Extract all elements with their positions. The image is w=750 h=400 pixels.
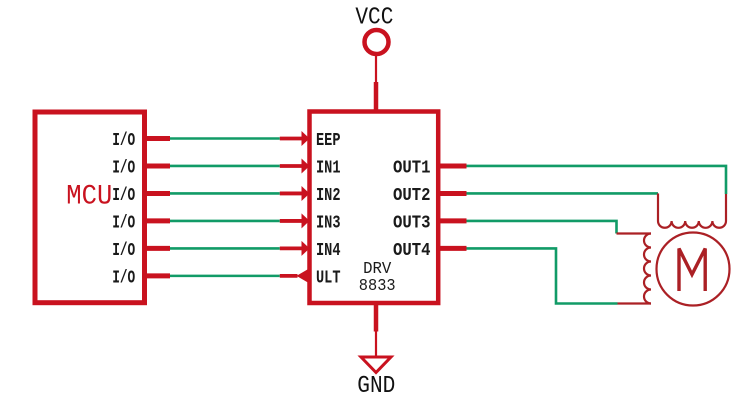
MCU pin stub I/O 2 (145, 163, 171, 168)
wire MCU to ULT (170, 275, 280, 278)
wire MCU to IN2 (170, 192, 280, 195)
motor M1 coil A lead left (657, 193, 659, 221)
wire MCU to IN3 (170, 220, 280, 223)
motor M1 coil A lead right (725, 194, 727, 221)
svg-text:I/O: I/O (112, 213, 135, 233)
pin IN2 arrowhead (302, 186, 310, 201)
pin OUT4 stub (438, 246, 467, 251)
wire OUT2 to motor coil A left (467, 192, 659, 195)
wire OUT4 to motor coil B bottom (467, 248, 618, 303)
pin IN4 arrowhead (302, 241, 310, 256)
svg-text:MCU: MCU (66, 182, 112, 213)
motor M1 coil B (vertical inductor) (644, 234, 651, 304)
VCC pin stub (thick) (374, 82, 379, 112)
GND pin stub (thick) (374, 303, 379, 332)
wire GND (thin) (375, 332, 377, 357)
pin IN1 lead (280, 164, 302, 168)
svg-text:IN4: IN4 (316, 241, 341, 261)
motor M1 letter M (679, 249, 705, 292)
motor M1 coil B lead top (617, 232, 652, 234)
svg-text:OUT1: OUT1 (393, 158, 431, 178)
pin EEP arrowhead (302, 131, 310, 146)
svg-text:I/O: I/O (112, 131, 135, 151)
pin ULT lead (280, 274, 298, 278)
DRV8833 U1 box (310, 112, 439, 304)
pin IN2 lead (280, 192, 302, 196)
motor M1 coil B lead bottom (618, 302, 652, 304)
MCU box (35, 112, 145, 303)
svg-text:ULT: ULT (316, 268, 341, 288)
MCU pin stub I/O 3 (145, 191, 171, 196)
svg-text:8833: 8833 (359, 276, 396, 295)
svg-text:I/O: I/O (112, 268, 135, 288)
svg-text:OUT3: OUT3 (393, 213, 431, 233)
svg-text:EEP: EEP (316, 131, 341, 151)
pin ULT arrowhead (points left) (297, 269, 309, 283)
svg-text:IN2: IN2 (316, 186, 341, 206)
svg-text:I/O: I/O (112, 186, 135, 206)
svg-text:GND: GND (357, 373, 395, 400)
wire MCU to IN1 (170, 165, 280, 168)
svg-text:IN3: IN3 (316, 213, 341, 233)
VCC symbol circle (365, 30, 389, 54)
MCU pin stub I/O 5 (145, 246, 171, 251)
svg-text:I/O: I/O (112, 241, 135, 261)
motor M1 body circle (657, 233, 730, 306)
MCU pin stub I/O 4 (145, 218, 171, 223)
svg-text:OUT4: OUT4 (393, 241, 431, 261)
svg-text:VCC: VCC (355, 4, 393, 31)
wire OUT1 to motor coil A right (467, 166, 727, 194)
pin OUT3 stub (438, 218, 467, 223)
wire OUT3 to motor coil B top (467, 221, 617, 234)
pin OUT1 stub (438, 163, 467, 168)
svg-text:OUT2: OUT2 (393, 186, 431, 206)
MCU pin stub I/O 6 (145, 273, 171, 278)
svg-text:IN1: IN1 (316, 158, 341, 178)
wire VCC (thin) (375, 56, 377, 82)
pin IN3 arrowhead (302, 213, 310, 228)
pin IN4 lead (280, 246, 302, 250)
pin EEP lead (280, 137, 302, 141)
GND symbol triangle (361, 357, 391, 373)
pin OUT2 stub (438, 191, 467, 196)
wire MCU to IN4 (170, 247, 280, 250)
pin IN3 lead (280, 219, 302, 223)
MCU pin stub I/O 1 (145, 136, 171, 141)
svg-text:I/O: I/O (112, 158, 135, 178)
pin IN1 arrowhead (302, 158, 310, 173)
motor M1 coil A (horizontal inductor) (658, 221, 726, 228)
wire MCU to EEP (170, 137, 280, 140)
